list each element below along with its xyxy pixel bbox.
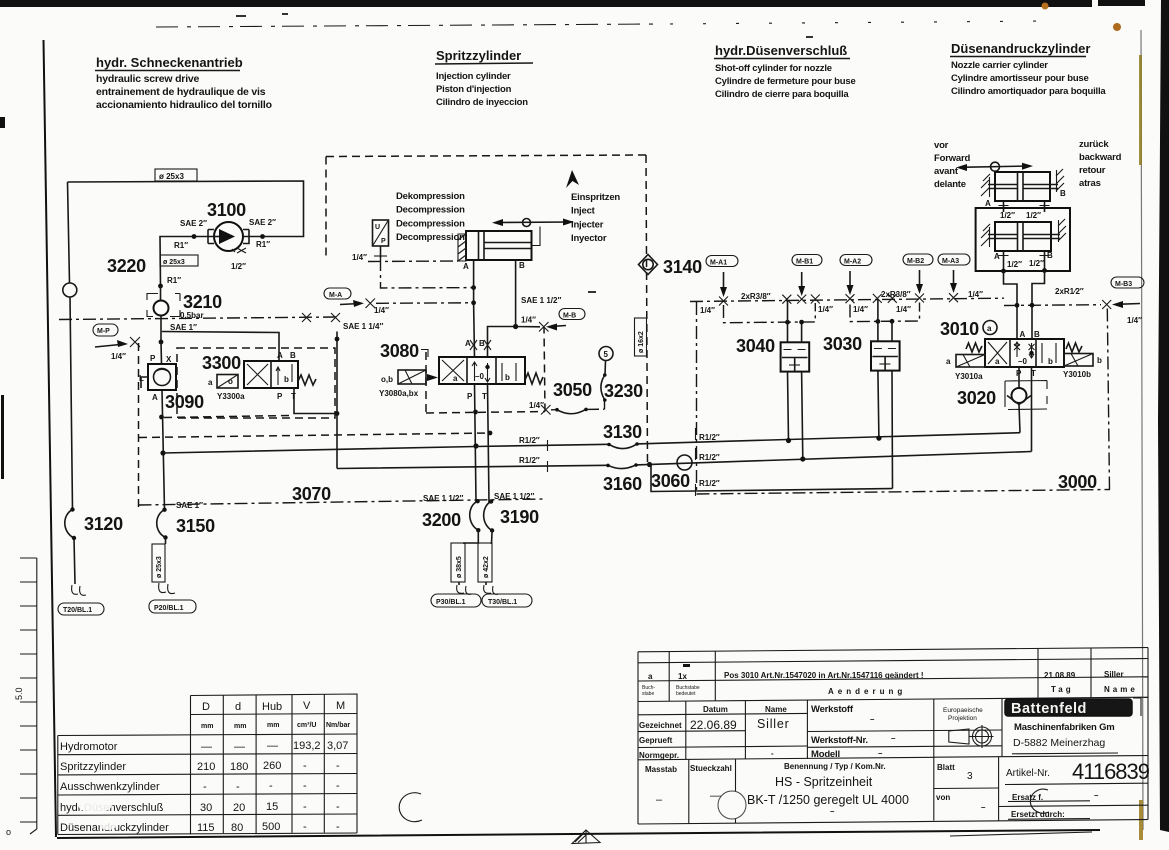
junction riser top — [335, 337, 340, 342]
dashed box Spritzzylinder right — [646, 155, 648, 466]
olive streak right edge lower — [1139, 800, 1143, 840]
check valve 3020 — [1005, 381, 1047, 410]
measuring oval M-A2 — [840, 255, 872, 266]
svg-text:-: - — [303, 821, 307, 833]
position indicator — [492, 219, 574, 246]
junction inside valve — [1029, 351, 1033, 355]
white blotch over ersatz — [1030, 789, 1049, 813]
spring left — [966, 343, 982, 352]
svg-text:1/4″: 1/4″ — [521, 316, 536, 325]
scanner right black bar — [1158, 0, 1169, 832]
svg-text:Cilindro amortiquador para boq: Cilindro amortiquador para boquilla — [951, 86, 1106, 97]
port stubs lower cylinder — [1004, 251, 1045, 271]
svg-text:1x: 1x — [678, 672, 687, 681]
svg-text:3100: 3100 — [207, 200, 246, 220]
svg-text:Nozzle carrier cylinder: Nozzle carrier cylinder — [951, 60, 1048, 71]
svg-text:3030: 3030 — [823, 334, 862, 354]
header: Duesenandruckzylinder — [950, 41, 1106, 97]
svg-text:P30/BL.1: P30/BL.1 — [436, 599, 466, 606]
label box 16x2 vertical — [635, 318, 647, 356]
svg-text:BK-T /1250 geregelt UL 4000: BK-T /1250 geregelt UL 4000 — [747, 793, 909, 807]
svg-text:a: a — [453, 374, 458, 383]
spring right — [1066, 343, 1082, 352]
measuring oval M-A3 — [938, 254, 970, 265]
svg-text:—: — — [234, 741, 245, 753]
arrow down M-A2 — [849, 271, 851, 290]
wire R1/2 line3 from 3060 — [696, 489, 893, 492]
svg-text:Projektion: Projektion — [948, 715, 977, 722]
arrow left M-B3 — [1117, 303, 1140, 306]
svg-text:-: - — [303, 780, 307, 792]
dashed box 3000 right edge — [1107, 308, 1109, 490]
svg-text:Geprueft: Geprueft — [639, 736, 673, 745]
hydromotor 3100 — [208, 222, 249, 251]
upper cylinder — [981, 169, 1064, 201]
measuring oval M-B1 — [792, 255, 822, 266]
svg-text:Forward: Forward — [934, 153, 970, 164]
label vor block — [934, 140, 970, 190]
junction P-line at supply branch — [160, 450, 165, 455]
dashed box 3000 bottom — [697, 490, 1111, 495]
port oval P20/BL.1 — [149, 600, 196, 613]
svg-text:Injecter: Injecter — [571, 219, 604, 230]
svg-text:3140: 3140 — [663, 257, 702, 277]
measuring oval M-P — [93, 324, 118, 336]
measuring line U/P to A-line — [381, 258, 474, 288]
svg-text:Nm/bar: Nm/bar — [326, 722, 350, 729]
svg-text:R1/2″: R1/2″ — [699, 479, 720, 488]
svg-text:Datum: Datum — [703, 705, 728, 714]
measuring circle on drain line — [63, 283, 77, 297]
svg-text:A: A — [985, 199, 991, 208]
orange dot top right — [1113, 23, 1121, 31]
ruler bottom left — [20, 558, 37, 834]
svg-text:–: – — [830, 807, 835, 816]
svg-text:A: A — [994, 252, 1000, 261]
svg-text:b: b — [1097, 356, 1102, 365]
svg-text:Ersatz f.: Ersatz f. — [1012, 793, 1043, 802]
drawing frame right border — [1141, 30, 1143, 830]
port oval T20/BL.1 — [58, 603, 104, 615]
svg-text:2xR3/8″: 2xR3/8″ — [881, 290, 911, 299]
svg-text:1/4″: 1/4″ — [818, 305, 833, 314]
measuring oval M-B2 — [903, 254, 933, 265]
wire P from 3080 down — [475, 384, 477, 502]
svg-text:5: 5 — [604, 350, 609, 359]
svg-text:P20/BL.1: P20/BL.1 — [154, 605, 184, 612]
svg-text:Hydromotor: Hydromotor — [60, 741, 118, 753]
svg-text:Pos 3010 Art.Nr.1547020 in Art: Pos 3010 Art.Nr.1547020 in Art.Nr.154711… — [724, 671, 924, 680]
svg-text:1/4″: 1/4″ — [968, 290, 983, 299]
port oval T30/BL.1 — [482, 594, 532, 607]
scanner top black bar — [0, 0, 1092, 7]
junction T riser — [335, 411, 340, 416]
svg-text:P: P — [150, 354, 156, 363]
svg-text:5.0: 5.0 — [14, 687, 24, 700]
header: hydr. Schneckenantrieb — [95, 55, 272, 111]
svg-text:3: 3 — [967, 771, 973, 782]
test point X at M-P — [130, 337, 140, 347]
label zurueck block — [1079, 139, 1122, 189]
lower columns — [688, 759, 690, 823]
svg-text:hydr.Düsenverschluß: hydr.Düsenverschluß — [715, 43, 847, 58]
hose 3230 vertical — [601, 361, 607, 409]
svg-text:–: – — [656, 794, 663, 806]
svg-text:o: o — [6, 827, 11, 837]
wire 3040 A-line — [788, 300, 789, 441]
dashed box around 3080 — [426, 327, 545, 413]
ticks on lines right — [695, 428, 697, 496]
svg-text:hydraulic screw drive: hydraulic screw drive — [96, 73, 200, 85]
svg-text:Cilindro de cierre para boquil: Cilindro de cierre para boquilla — [715, 89, 849, 100]
drawing frame bottom — [57, 830, 1100, 838]
svg-text:Hub: Hub — [262, 701, 282, 713]
junctions on manifold step — [1015, 303, 1020, 308]
svg-text:2xR3/8″: 2xR3/8″ — [741, 292, 771, 301]
Battenfeld logo — [1005, 698, 1141, 717]
svg-text:Name: Name — [1104, 685, 1138, 694]
circled 5 test coupling — [599, 347, 613, 361]
smudge over table text 2 — [99, 818, 117, 830]
svg-text:D: D — [202, 701, 210, 713]
svg-text:M-A1: M-A1 — [710, 260, 727, 267]
svg-text:Piston d'injection: Piston d'injection — [436, 84, 512, 95]
svg-text:21.08.89: 21.08.89 — [1044, 671, 1076, 680]
svg-text:Siller: Siller — [1104, 670, 1124, 679]
arrows into 3080 top — [470, 340, 491, 350]
label box 25x3 top — [155, 169, 197, 181]
junction U/P tap on A-line — [471, 285, 476, 290]
svg-text:3220: 3220 — [107, 256, 146, 276]
svg-text:M-P: M-P — [97, 328, 110, 335]
svg-text:4116839: 4116839 — [1072, 759, 1150, 784]
gauge 3060 — [651, 455, 696, 492]
measuring oval M-B3 — [1111, 277, 1144, 288]
svg-text:ø 25x3: ø 25x3 — [156, 556, 163, 578]
measuring oval M-B — [559, 309, 585, 320]
arrow down M-A1 — [723, 272, 725, 292]
svg-text:M-B3: M-B3 — [1115, 281, 1132, 288]
svg-text:B: B — [519, 261, 525, 270]
header: Spritzzylinder — [435, 48, 533, 108]
svg-text:3130: 3130 — [603, 422, 642, 442]
svg-text:M-B1: M-B1 — [796, 259, 813, 266]
svg-text:30: 30 — [200, 802, 212, 814]
svg-text:–0: –0 — [475, 372, 484, 381]
svg-text:3070: 3070 — [292, 484, 331, 504]
svg-text:SAE 1″: SAE 1″ — [170, 323, 197, 332]
svg-text:1/4″: 1/4″ — [352, 253, 367, 262]
solenoid right — [1064, 354, 1093, 367]
svg-text:SAE 1 1/2″: SAE 1 1/2″ — [423, 494, 463, 503]
svg-text:a: a — [208, 378, 213, 387]
svg-text:-: - — [336, 821, 340, 833]
svg-text:1/4″: 1/4″ — [700, 306, 715, 315]
junctions at frame bottom — [1001, 269, 1006, 274]
port stubs upper cylinder — [1004, 201, 1045, 212]
svg-text:Y3010a: Y3010a — [955, 372, 983, 381]
svg-text:210: 210 — [197, 761, 215, 773]
svg-text:Dekompression: Dekompression — [396, 191, 465, 202]
cylinder 3030 — [871, 341, 900, 370]
valve 3300 — [217, 361, 316, 388]
svg-text:3020: 3020 — [957, 388, 996, 408]
svg-text:Stueckzahl: Stueckzahl — [690, 764, 732, 773]
svg-text:-: - — [236, 781, 240, 793]
svg-text:-: - — [303, 801, 307, 813]
svg-text:b: b — [284, 375, 289, 384]
wire T from 3080 down — [488, 384, 490, 503]
svg-text:1/4″: 1/4″ — [374, 306, 389, 315]
svg-text:Spritzzylinder: Spritzzylinder — [436, 48, 521, 63]
smudge over table text 1 — [78, 797, 112, 813]
svg-text:Ausschwenkzylinder: Ausschwenkzylinder — [60, 781, 160, 793]
svg-text:1/4″: 1/4″ — [896, 305, 911, 314]
dashed box around 3300 — [177, 348, 335, 418]
svg-text:von: von — [936, 793, 950, 802]
svg-text:SAE 2″: SAE 2″ — [249, 218, 276, 227]
wire A-line cylinder to valve — [473, 260, 476, 357]
diamond coupling 3140 — [639, 255, 658, 275]
svg-text:Normgepr.: Normgepr. — [639, 751, 679, 760]
svg-text:a: a — [946, 357, 951, 366]
svg-text:Injection cylinder: Injection cylinder — [436, 71, 511, 82]
svg-text:–: – — [981, 803, 986, 812]
svg-text:–: – — [891, 734, 896, 743]
white blotch circle artifact — [399, 793, 422, 822]
svg-text:1/4″: 1/4″ — [853, 305, 868, 314]
svg-text:bedeutet: bedeutet — [676, 691, 696, 697]
spring right — [525, 373, 543, 384]
svg-text:Europaeische: Europaeische — [943, 707, 983, 714]
svg-text:1/2″: 1/2″ — [1000, 211, 1015, 220]
arrow M-A — [340, 304, 360, 305]
pressure transducer U/P — [373, 220, 389, 258]
svg-text:3230: 3230 — [604, 381, 643, 401]
label Dekompression x4 — [396, 191, 465, 243]
svg-text:SAE 1 1/2″: SAE 1 1/2″ — [494, 492, 534, 501]
svg-text:3190: 3190 — [500, 507, 539, 527]
arrow down M-B1 — [801, 272, 803, 291]
svg-text:A: A — [1020, 330, 1026, 339]
svg-text:L: L — [139, 374, 144, 383]
pigtail M-A2 to 3030 lines — [850, 303, 920, 324]
label box 25x3 second — [160, 255, 198, 266]
wire B-line to valve B port — [488, 327, 516, 358]
svg-text:Tag: Tag — [1051, 685, 1074, 694]
svg-text:3000: 3000 — [1058, 472, 1097, 492]
wire R1/2 line 3160 — [337, 452, 1032, 469]
outer box — [638, 648, 1148, 652]
svg-text:Decompression: Decompression — [396, 218, 465, 229]
svg-text:X: X — [166, 355, 172, 364]
svg-text:SAE 1 1/4″: SAE 1 1/4″ — [343, 322, 383, 331]
hook above P20 oval — [159, 583, 175, 594]
header: hydr.Duesenverschluss — [714, 43, 856, 100]
measuring line M-A to A-line — [376, 302, 474, 305]
svg-text:B: B — [1060, 189, 1066, 198]
hooks above P30 T30 — [458, 582, 460, 585]
wire 3010 B-line from manifold — [1031, 285, 1033, 340]
pilot check valve 3090 — [141, 364, 176, 390]
arrow down M-A3 — [953, 270, 955, 288]
svg-text:22.06.89: 22.06.89 — [690, 718, 737, 732]
main columns — [685, 701, 687, 759]
dashed drain line to T — [139, 433, 490, 438]
label box 38x5 vertical — [451, 543, 465, 582]
svg-text:-: - — [269, 780, 273, 792]
svg-text:3200: 3200 — [422, 510, 461, 530]
svg-text:zurück: zurück — [1079, 139, 1109, 150]
svg-text:3150: 3150 — [176, 516, 215, 536]
svg-text:-: - — [336, 780, 340, 792]
wire 3300 T to drain riser — [294, 388, 337, 414]
svg-text:3080: 3080 — [380, 341, 419, 361]
dashed box 3070 left edge — [138, 343, 140, 512]
svg-text:3090: 3090 — [165, 392, 204, 412]
svg-text:hydr. Schneckenantrieb: hydr. Schneckenantrieb — [96, 55, 243, 70]
svg-text:15: 15 — [266, 801, 278, 813]
svg-text:1/2″: 1/2″ — [1026, 211, 1041, 220]
svg-text:Einspritzen: Einspritzen — [571, 192, 620, 203]
svg-text:Decompression: Decompression — [396, 232, 465, 243]
solenoid left — [398, 370, 426, 384]
svg-text:Y3080a,bx: Y3080a,bx — [379, 389, 419, 398]
olive streak right edge upper — [1139, 55, 1142, 165]
injection cylinder — [458, 231, 532, 261]
hose 3150 — [157, 508, 215, 545]
svg-text:ø 38x5: ø 38x5 — [456, 556, 463, 578]
svg-text:-: - — [771, 749, 774, 758]
wire T below 3010 — [1031, 367, 1033, 452]
svg-text:delante: delante — [934, 179, 966, 190]
wire drain riser to 3160 — [336, 332, 338, 469]
svg-text:2xR1⁄2″: 2xR1⁄2″ — [1055, 287, 1084, 296]
svg-text:1/2″: 1/2″ — [231, 262, 246, 271]
svg-text:mm: mm — [267, 722, 279, 729]
wire 3030 A-line — [878, 299, 879, 438]
svg-text:M-B2: M-B2 — [907, 258, 924, 265]
junction M-P on P-line — [159, 340, 164, 345]
test point X near 3050 — [541, 405, 551, 415]
wire R1/2 line 3130 — [163, 433, 1020, 453]
hose 3190 — [484, 499, 539, 544]
svg-text:M-A2: M-A2 — [844, 259, 861, 266]
test point X marks on manifold — [719, 293, 1111, 309]
dash-dot supply line SAE 1 1/4 with test points — [59, 313, 340, 322]
svg-text:Inject: Inject — [571, 206, 596, 217]
measuring oval M-A1 — [706, 256, 738, 267]
hose bridge 3160 — [606, 463, 638, 468]
junction 3040-A on 3130 — [786, 438, 791, 443]
svg-text:M-B: M-B — [563, 313, 576, 320]
wire P supply to 3300 A-port — [162, 332, 279, 362]
svg-text:—: — — [201, 741, 212, 753]
port oval P30/BL.1 — [431, 594, 481, 607]
junction SAE2 right — [260, 234, 265, 239]
measuring line with hose 3050 — [551, 408, 605, 414]
svg-text:B: B — [290, 351, 296, 360]
svg-text:ø 42x2: ø 42x2 — [483, 556, 490, 578]
svg-text:500: 500 — [262, 821, 280, 833]
svg-text:M-A3: M-A3 — [942, 258, 959, 265]
hose bridge 3130 — [607, 442, 639, 448]
svg-text:-: - — [203, 781, 207, 793]
manifold measuring line — [690, 298, 1101, 305]
junction P on box edge — [473, 410, 478, 415]
svg-text:P: P — [381, 238, 386, 245]
blatt/von divider — [934, 787, 999, 790]
dashed box 3070 bottom — [139, 499, 546, 505]
svg-text:R1″: R1″ — [174, 241, 188, 250]
left page-edge mark — [1, 395, 4, 479]
svg-text:-: - — [336, 801, 340, 813]
svg-text:3120: 3120 — [84, 514, 123, 534]
junction below 3090 — [159, 415, 164, 420]
drain port x mark and 1/2" — [232, 248, 246, 253]
svg-text:3300: 3300 — [202, 353, 241, 373]
svg-text:Battenfeld: Battenfeld — [1011, 701, 1087, 717]
svg-text:vor: vor — [934, 140, 949, 151]
svg-text:Artikel-Nr.: Artikel-Nr. — [1006, 768, 1050, 779]
valve 3010 — [956, 339, 1093, 367]
wire P below 3010 through 3020 — [1019, 367, 1020, 433]
junction SAE2 left — [192, 234, 197, 239]
svg-text:Werkstoff-Nr.: Werkstoff-Nr. — [811, 735, 868, 746]
svg-text:ø 25x3: ø 25x3 — [163, 259, 185, 266]
svg-text:Düsenandruckzylinder: Düsenandruckzylinder — [951, 41, 1090, 56]
svg-text:Spritzzylinder: Spritzzylinder — [60, 761, 126, 773]
wire 3010 A-line from manifold — [1016, 285, 1018, 339]
svg-text:Y3300a: Y3300a — [217, 392, 245, 401]
junction box edge on 3160 — [647, 462, 652, 467]
svg-text:Cilindro de inyeccion: Cilindro de inyeccion — [436, 97, 528, 108]
change log rows — [638, 659, 1148, 663]
label box 42x2 vertical — [478, 543, 492, 582]
test point X at M-B — [539, 322, 549, 332]
svg-text:b: b — [1048, 357, 1053, 366]
svg-text:1/2″: 1/2″ — [1029, 259, 1044, 268]
table values — [197, 740, 348, 834]
broken top frame line — [156, 24, 658, 27]
svg-text:backward: backward — [1079, 152, 1122, 163]
svg-text:1/4″: 1/4″ — [111, 352, 126, 361]
lower cylinder — [981, 219, 1066, 251]
wire motor left to P-line — [160, 237, 214, 287]
svg-text:mm: mm — [201, 723, 213, 730]
svg-text:M: M — [336, 700, 345, 712]
svg-text:Inyector: Inyector — [571, 233, 607, 244]
svg-text:P: P — [467, 392, 473, 401]
svg-text:b: b — [505, 373, 510, 382]
svg-text:Aenderung: Aenderung — [828, 687, 906, 696]
svg-text:Maschinenfabriken Gm: Maschinenfabriken Gm — [1014, 722, 1115, 733]
svg-text:R1/2″: R1/2″ — [519, 456, 540, 465]
junction T branch — [488, 431, 493, 436]
svg-text:R1″: R1″ — [167, 276, 181, 285]
check valve 3210 — [147, 286, 180, 341]
svg-text:–: – — [878, 749, 883, 758]
wire tank drain left vertical with circle — [63, 182, 77, 584]
hook above T20 oval — [72, 585, 86, 595]
svg-text:d: d — [235, 701, 241, 713]
svg-text:Modell: Modell — [811, 749, 840, 760]
svg-text:Masstab: Masstab — [645, 765, 677, 774]
tick marks on lines left — [547, 440, 549, 472]
svg-text:atras: atras — [1079, 178, 1101, 189]
dashed box Spritzzylinder left — [325, 157, 327, 257]
svg-text:260: 260 — [263, 760, 281, 772]
